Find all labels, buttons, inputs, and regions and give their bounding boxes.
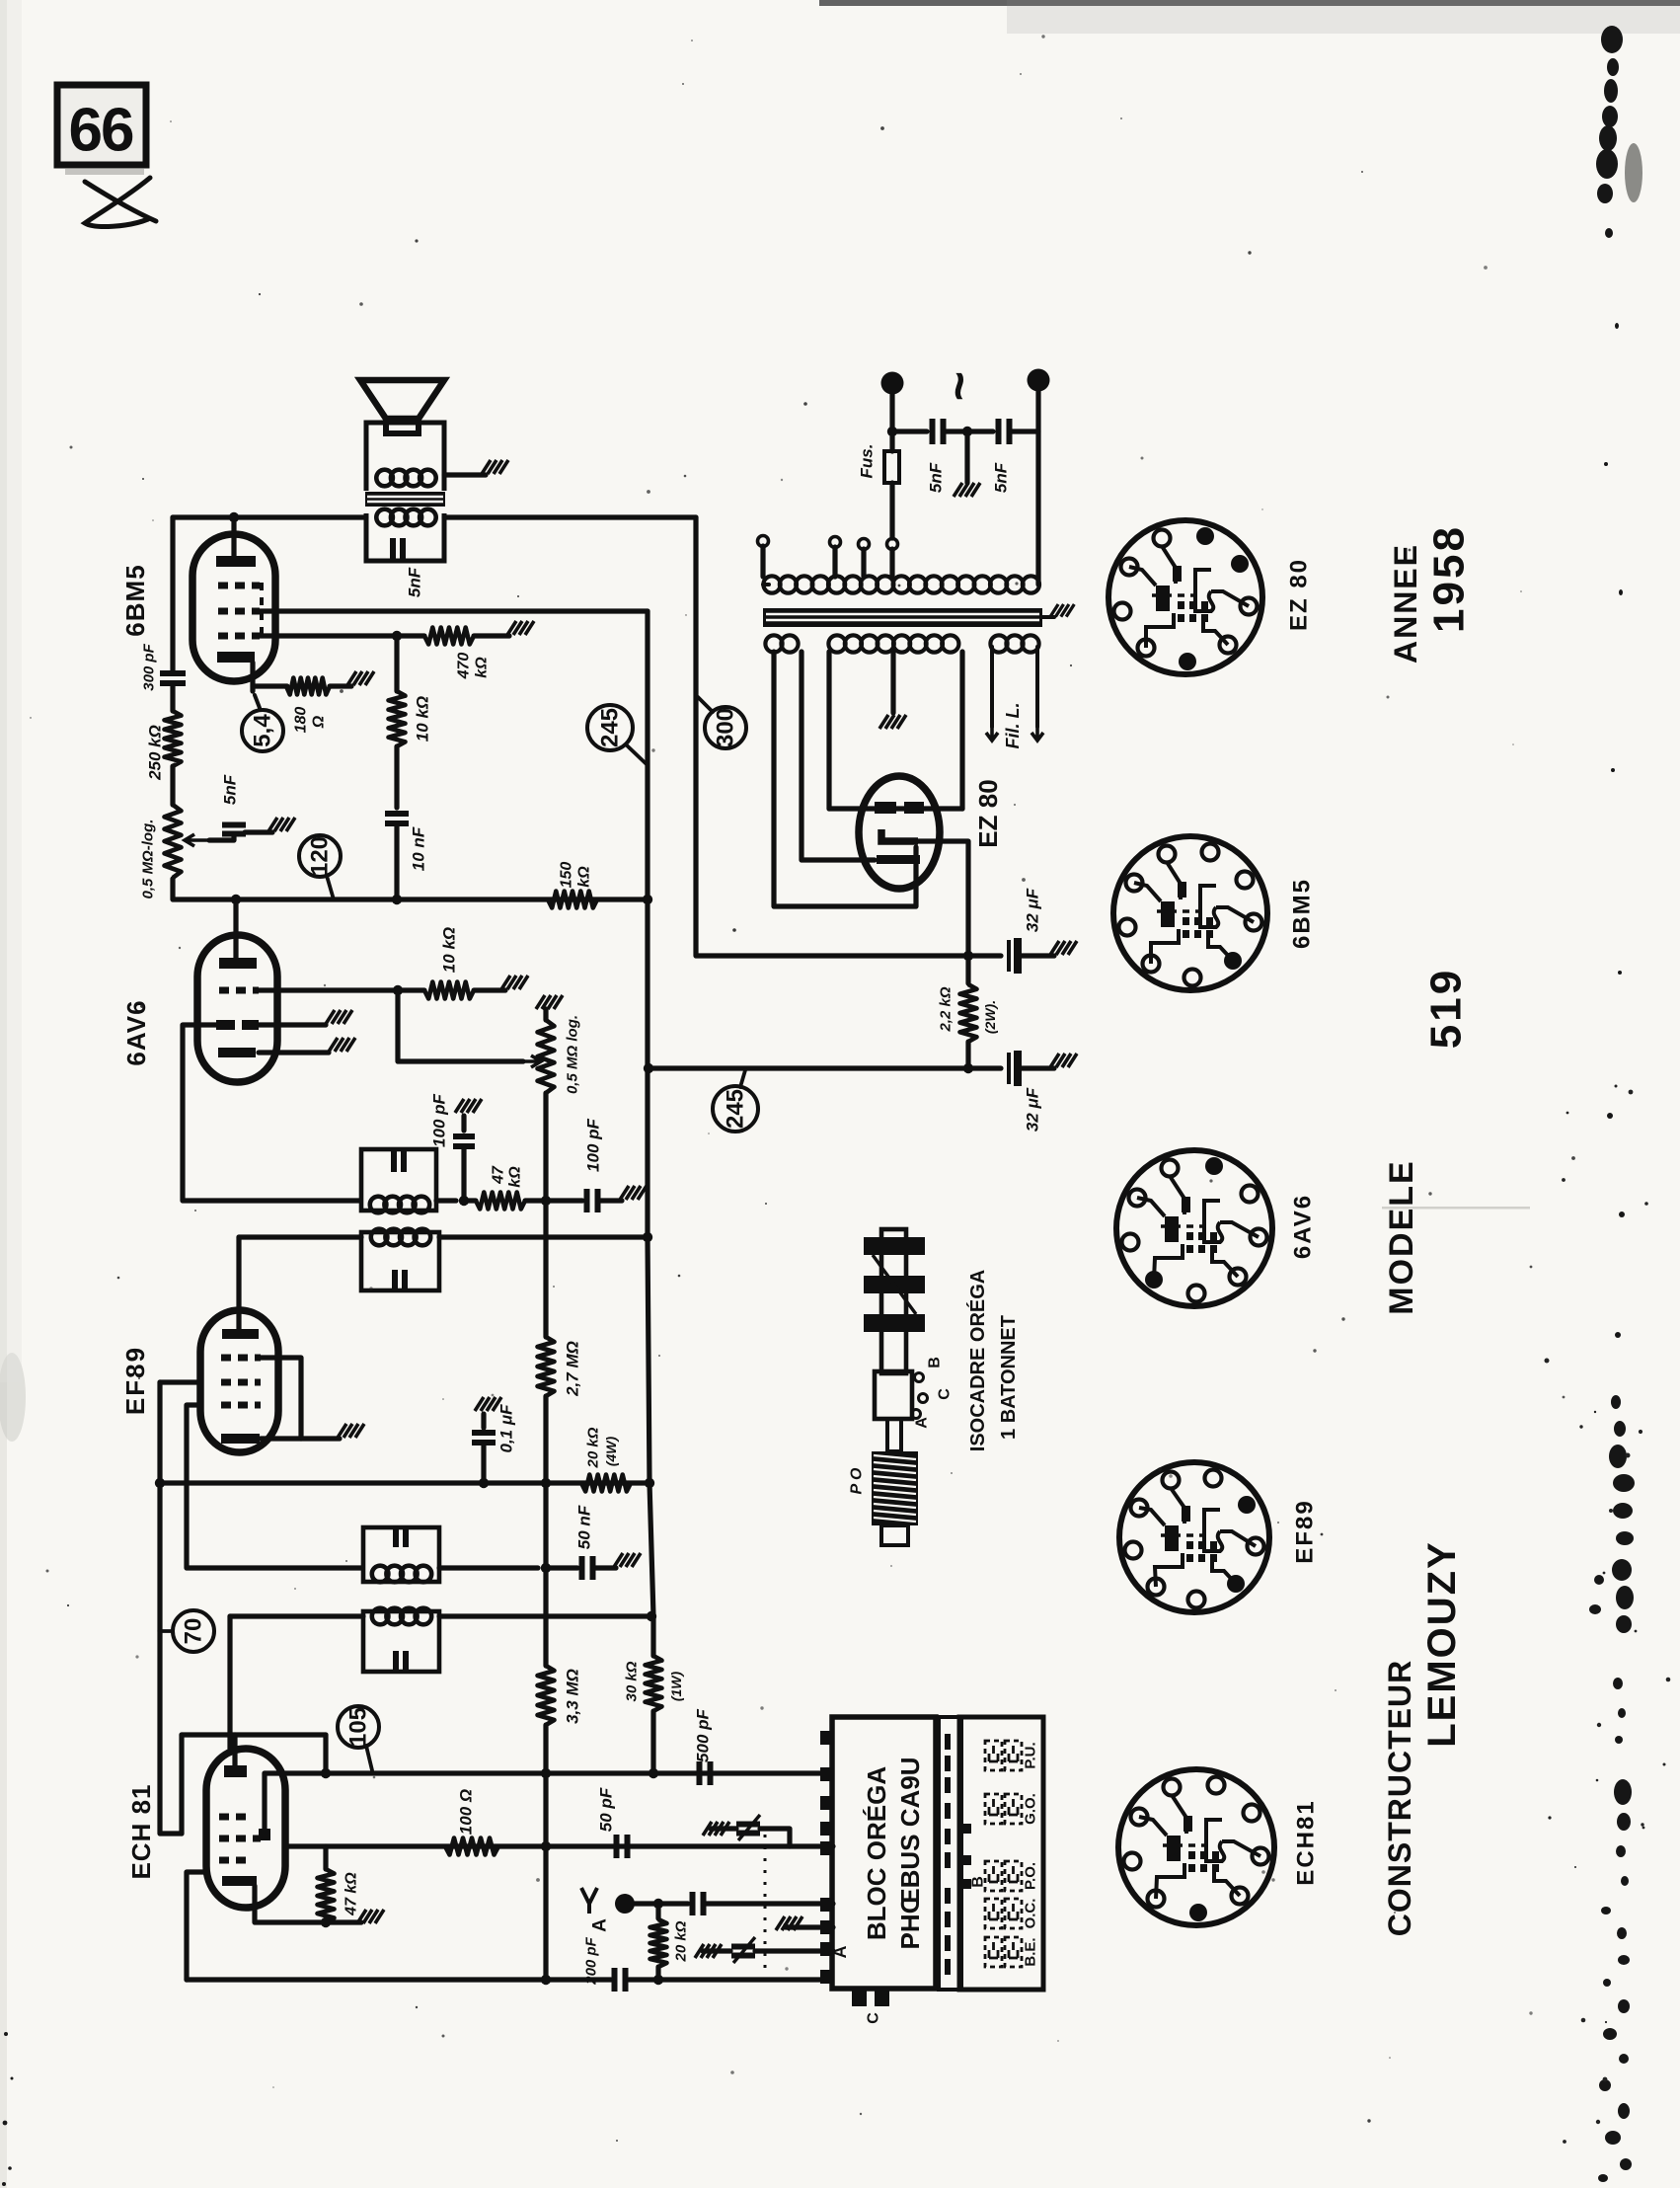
ECH81 grid dashes row2 [219,1836,261,1842]
EZ80 anode bar 2 [904,802,924,814]
svg-text:PHŒBUS CA9U: PHŒBUS CA9U [895,1757,925,1949]
trimmer capacitor 2 [731,1947,755,1956]
bloc bottom stub 1 [852,1989,867,2006]
power transformer primary winding [763,576,1039,592]
wire AVC line to EF89 row [543,1396,548,1483]
wire EF89 g2 out left [160,1379,200,1384]
capacitor IF T1 sec tuning [396,1525,406,1547]
svg-text:100 pF: 100 pF [584,1118,603,1171]
svg-text:6AV6: 6AV6 [1290,1194,1317,1259]
svg-text:P.O.: P.O. [1023,1862,1039,1890]
svg-text:5nF: 5nF [927,462,946,493]
wire mains left down [889,394,894,431]
6BM5 internal grid tie dashes [260,583,264,640]
resistor 3,3 MΩ [538,1666,555,1725]
svg-text:47: 47 [491,1165,507,1185]
svg-text:EZ 80: EZ 80 [973,779,1003,847]
bloc pin [820,1942,834,1956]
potentiometer wiper arrow [185,834,209,846]
isocadre terminal circles [912,1373,928,1419]
EZ80 cathode bracket [881,829,918,841]
wire 250k to volume pot [170,766,175,805]
ground 6AV6 diode [326,1010,352,1024]
ground AVC 100pF [620,1186,647,1200]
resistor 30 kΩ (1W) [646,1656,662,1711]
svg-text:20 kΩ: 20 kΩ [585,1427,602,1468]
wire cathode to 47k [255,1898,326,1922]
ground after 470k [507,621,534,635]
wire tap4 stem [889,549,894,577]
ferrite rod coil section 1 [864,1237,925,1255]
wire 245V line [649,1065,968,1070]
wire 32uF to ground [1022,953,1054,958]
IF transformer T2 secondary coil [370,1197,429,1213]
svg-text:ANNEE: ANNEE [1388,543,1423,664]
svg-text:G.O.: G.O. [1023,1793,1039,1825]
bloc switch wafer band [939,1717,961,1990]
capacitor 50 pF [617,1835,628,1858]
svg-text:10 nF: 10 nF [410,826,428,871]
wire grid junction to volume pot wiper [398,990,523,1061]
node rail / osc line [649,1768,658,1778]
faint scan line near MODELE [1382,1207,1530,1210]
bloc coil cell B.E. [985,1937,1002,1967]
svg-text:EF89: EF89 [120,1346,150,1415]
ferrite rod winding diagonal [873,1255,916,1314]
capacitor 10 nF [385,814,409,823]
capacitor IF T1 primary tuning [396,1651,406,1673]
capacitor 50 nF [582,1556,593,1580]
IF transformer T1 secondary frame [363,1527,439,1582]
node bottom rail 10nF junction [392,895,402,904]
svg-text:EZ 80: EZ 80 [1286,558,1313,631]
node voltage 245 V (top) [587,705,633,750]
svg-text:10 kΩ: 10 kΩ [414,696,432,742]
output transformer secondary frame [366,513,444,561]
wire 5nF to mains right [1010,429,1038,433]
secondary winding heater 2 (Fil. L.) [990,635,1038,652]
capacitor 32 μF no.1 [1009,938,1018,974]
node grid / 10k junction [393,985,403,995]
IF transformer T2 primary frame [361,1232,439,1290]
wire 2,2k to 245 line [965,1042,970,1068]
node 0,1uF junction [479,1478,489,1488]
capacitor 100 pF AVC [587,1189,598,1212]
capacitor 5nF across secondary [393,538,403,560]
bloc switch contact [945,1852,951,1868]
resistor 10 kΩ grid [424,982,474,999]
svg-text:245: 245 [723,1089,749,1129]
wire EZ80 anode line [829,806,962,811]
tube 6BM5 envelope [192,534,275,681]
wire 6BM5 anode lead [231,517,236,559]
svg-text:20 kΩ: 20 kΩ [673,1920,690,1962]
node detector output [459,1196,469,1206]
wire secondary to HT line [444,514,696,519]
bloc switch contact [945,1829,951,1844]
wire right HT rail upper [645,611,649,899]
wire 6AV6 diode to detector coil [183,1025,359,1201]
output transformer secondary coil [376,509,435,526]
node voltage 300 V [705,707,746,748]
antenna terminal dot [615,1894,635,1914]
power transformer core [763,608,1042,627]
wire top rail to 6BM5 anode branch [173,514,366,519]
wire AVC line lower [543,1483,548,1568]
capacitor IF T2 tuning [394,1150,404,1172]
ground tone capacitor [268,818,295,831]
node mixer line / AVC [541,1841,551,1851]
wire 10k to ground [474,987,505,992]
svg-text:5,4: 5,4 [250,714,276,747]
capacitor 300 pF coupling [160,673,186,683]
resistor 470 kΩ [424,628,474,645]
wire mains to fuse [889,431,894,451]
ground mains caps [954,483,980,497]
wire cap centre to ground [964,431,969,483]
wire HT riser to EZ80 cathode line [696,517,968,956]
bloc pin [820,1767,834,1781]
wire 245 bubble stem [626,744,648,765]
wire between 5nF caps [944,429,993,433]
bloc pin [820,1920,834,1934]
node rail / 150k junction [643,895,652,904]
node AVC to antenna rail [541,1975,551,1985]
ground 32uF no.1 [1050,941,1077,955]
secondary winding heater 1 [765,635,798,652]
wire left branch down to 300pF [170,517,175,672]
capacitor 5nF mains 1 [933,419,944,444]
svg-text:(1W): (1W) [668,1672,684,1702]
wire 120 bubble stem [327,876,334,899]
wire trimmer 1 to bloc line [760,1829,790,1846]
svg-text:Fil. L.: Fil. L. [1003,703,1023,749]
ground above volume pot [536,995,563,1009]
wire 0,1uF to row [481,1444,486,1483]
wire trimmer 2 to bloc pin [755,1948,833,1953]
6BM5 anode bar [216,556,256,567]
bloc coil cell O.C. [985,1899,1002,1928]
wire AVC to 3,3M [543,1568,548,1666]
svg-text:kΩ: kΩ [576,866,593,888]
trimmer capacitor 1 [736,1825,760,1834]
wire T1 primary to HT rail [439,1613,653,1618]
wire tap2 stem [832,547,837,577]
svg-text:C: C [866,2012,882,2024]
node AVC / AGC bus junction [541,1478,551,1488]
wire 6AV6 cathode to ground [259,1050,329,1055]
node voltage 245 V (lower) [713,1086,758,1132]
wire ECH81 heptode anode lead [227,1616,232,1749]
wire 300 bubble stem [698,697,713,712]
svg-text:P.U.: P.U. [1023,1742,1039,1768]
ferrite rod coil section 3 [864,1314,925,1332]
node bottom rail to 6AV6 anode [231,895,241,904]
capacitor 0,1 μF [472,1433,496,1443]
ECH81 cathode bar [222,1876,257,1886]
svg-text:47 kΩ: 47 kΩ [344,1872,360,1916]
resistor 10 kΩ screen [389,691,406,746]
svg-text:10 kΩ: 10 kΩ [440,927,459,973]
node rail / 245 line [644,1063,653,1073]
ground 6AV6 cathode [329,1038,355,1052]
wire bottom ground rail left [187,1977,611,1982]
oscillator coil PO base [881,1525,908,1545]
output transformer primary frame [366,423,444,491]
wire 300pF to 250k [170,684,175,711]
wire pot top [543,1009,548,1020]
wire speaker frame to ground [444,472,486,477]
mains terminal dot left [881,372,904,395]
bloc pin [820,1822,834,1836]
node screen bus / AGC row [155,1478,165,1488]
wire 20k top stem [655,1904,660,1918]
svg-text:120: 120 [307,836,334,876]
svg-text:50 nF: 50 nF [575,1505,594,1549]
resistor 250 kΩ [165,711,182,766]
svg-text:kΩ: kΩ [507,1166,524,1188]
capacitor 5nF tone [222,825,246,834]
wire gnd to trimmer 2 [703,1948,730,1953]
wire T1 sec to AVC line [439,1565,538,1570]
bloc switch contact [945,1777,951,1793]
mains terminal dot right [1028,369,1050,392]
tube EF89 envelope [200,1310,278,1452]
svg-text:200 pF: 200 pF [583,1936,600,1985]
tube ECH81 envelope [206,1749,285,1908]
bloc bottom stub 2 [875,1989,889,2006]
resistor 47 kΩ cathode [318,1869,335,1922]
svg-text:30 kΩ: 30 kΩ [624,1661,641,1701]
wire ECH81 outer loop left [179,1735,184,1834]
svg-text:C: C [937,1388,954,1400]
tube 6AV6 envelope [197,935,277,1082]
node mains cap centre [962,427,972,436]
svg-text:6AV6: 6AV6 [121,999,151,1065]
wire to 32uF no.2 [968,1065,1001,1070]
svg-text:250 kΩ: 250 kΩ [146,725,165,781]
node voltage 5,4 V [242,710,283,751]
antenna symbol [581,1888,597,1914]
wire triode anode lead up [262,1773,267,1829]
wire screen bus upper [157,1382,162,1483]
bloc pin [820,1731,834,1745]
scan noise right edge [1589,26,1642,2182]
wire antenna cap to bloc [704,1901,833,1906]
svg-text:A: A [590,1918,611,1932]
svg-text:32 μF: 32 μF [1024,888,1042,932]
wire 6AV6 anode lead [233,899,238,961]
transformer primary tap circles [758,536,769,547]
ganged tuning dashed link [764,1835,767,1973]
svg-text:kΩ: kΩ [474,657,491,678]
IF transformer T2 secondary frame [361,1149,436,1211]
resistor 20 kΩ (4W) [581,1475,631,1492]
wire AVC line bottom [543,1773,548,1980]
wire 5nF to ground [245,829,272,834]
svg-text:ECH81: ECH81 [1293,1799,1320,1885]
wire 6BM5 control grid row [259,633,397,638]
capacitor 100 pF detector [453,1136,475,1146]
wire 10nF to bottom rail [394,824,399,899]
wire 50nF to ground [593,1565,616,1570]
wire to 2,2k [965,956,970,983]
svg-text:(4W): (4W) [603,1437,619,1467]
ground bloc pin stub [776,1916,802,1930]
oscillator coil PO stem [887,1419,901,1451]
ground trimmer 2 [695,1944,722,1958]
svg-text:105: 105 [345,1707,372,1747]
wire right HT rail lower-mid [648,1237,649,1483]
resistor 20 kΩ antenna [650,1919,667,1967]
wire AVC node to 50nF [546,1565,577,1570]
volume pot wiper arrow [523,1055,541,1067]
ground 50 nF [614,1553,641,1567]
wire AVC line middle [543,1201,548,1337]
tube socket EF89 (underside view) [1119,1462,1269,1612]
bloc switch contact [945,1888,951,1904]
svg-text:100 Ω: 100 Ω [457,1789,476,1835]
svg-text:6BM5: 6BM5 [120,564,150,636]
scan specks bottom-left corner [2,2032,14,2186]
capacitor IF T2 primary tuning [395,1270,405,1291]
wire to 5nF no.1 [892,429,927,433]
svg-text:0,5 MΩ-log.: 0,5 MΩ-log. [140,820,157,899]
wire T2 primary to HT rail [439,1234,648,1239]
svg-text:180: 180 [293,707,310,734]
6BM5 cathode bar [217,652,255,663]
potentiometer 0,5 MΩ-log [165,805,182,878]
wire 180 ohm to ground [330,683,351,688]
wire core to ground [1042,615,1054,619]
potentiometer 0,5 MΩ log volume [538,1020,555,1093]
IF transformer T1 secondary coil [372,1566,431,1583]
EZ80 anode bar 1 [875,802,896,814]
svg-text:1958: 1958 [1425,524,1474,633]
wire 20k to bottom rail [655,1967,660,1980]
6AV6 cathode bar [218,1048,256,1057]
capacitor 500 pF padder [700,1761,711,1785]
wire to 10k [398,987,424,992]
svg-text:2,2 kΩ: 2,2 kΩ [938,986,955,1032]
node AVC junction [541,1196,551,1206]
wire 3,3M to osc line [543,1725,548,1773]
svg-text:300 pF: 300 pF [141,643,158,690]
svg-text:2,7 MΩ: 2,7 MΩ [564,1341,582,1397]
node grid/470k junction [392,631,402,641]
wire 470k to ground [474,633,509,638]
svg-text:P O: P O [849,1467,866,1495]
IF transformer T2 primary coil [371,1229,430,1246]
wire tap1 stem [760,546,765,577]
wire EF89 g3 tie to cathode [261,1358,301,1439]
tube EZ80 envelope [859,776,940,889]
resistor 150 kΩ [548,892,597,908]
wire heater 1 left loop [774,652,916,906]
svg-text:150: 150 [559,862,575,889]
wire right HT rail middle [645,899,649,1237]
bloc coil cell G.O. [985,1794,1002,1824]
svg-text:3,3 MΩ: 3,3 MΩ [564,1669,582,1724]
svg-text:100 pF: 100 pF [430,1093,449,1146]
ground after 180 ohm [347,671,374,685]
bloc pin [820,1841,834,1855]
IF transformer T1 primary frame [363,1611,439,1672]
page number box 66 [57,85,146,175]
svg-text:500 pF: 500 pF [694,1708,713,1761]
svg-text:1 BATONNET: 1 BATONNET [998,1315,1020,1440]
svg-text:MODELE: MODELE [1383,1159,1420,1314]
fuse body [884,451,899,483]
node voltage 105 V [338,1706,379,1748]
output transformer primary coil [376,470,435,487]
svg-text:50 pF: 50 pF [597,1787,616,1832]
6AV6 grid dashes [219,987,259,994]
wire EF89 cathode to ground [301,1436,340,1441]
wire AF stage bottom rail [173,879,648,899]
node rail / 20k [645,1478,654,1488]
wire tap3 stem [861,549,866,577]
svg-text:0,1 μF: 0,1 μF [497,1404,516,1453]
EF89 grid3 dashes [221,1355,261,1362]
svg-text:O.C.: O.C. [1023,1899,1039,1929]
6AV6 diode plate right [242,1020,259,1030]
arrow Fil.L left [986,725,998,741]
wire diode plates to ground [259,1022,326,1027]
tube socket 6BM5 (underside view) [1113,836,1267,990]
wire screen bus bottom [160,1631,182,1834]
wire mains right to primary end [1035,391,1040,585]
wire T2 primary to EF89 anode [239,1234,361,1239]
wire Fil.L right [1035,647,1039,727]
wire 30k to osc supply line [650,1711,655,1773]
svg-text:LEMOUZY: LEMOUZY [1420,1540,1464,1748]
wire 100pF to ground [598,1198,622,1203]
ECH81 heptode anode bar [224,1765,247,1777]
svg-text:A: A [830,1946,850,1959]
wire 245 lower bubble stem [740,1070,745,1087]
wire bottom rail to bloc [629,1977,825,1982]
wire screen bus to 70 node [157,1483,162,1631]
wire HT right to EZ80 anode [959,652,964,809]
svg-text:5nF: 5nF [992,462,1011,493]
ground above 100 pF detector [455,1099,482,1113]
capacitor 200 pF [615,1968,626,1992]
wire ECH81 cathode hook [252,1886,257,1898]
resistor 100 Ω [445,1838,498,1855]
wire 70 bubble stem [160,1629,173,1633]
ground above 0,1 uF [475,1397,501,1411]
bloc pin [820,1898,834,1912]
arrow Fil.L right [1031,725,1043,741]
secondary winding HT [828,635,958,652]
resistor 2,7 MΩ [538,1337,555,1396]
node bottom rail / 20k [653,1975,663,1985]
wire ECH81 g1 mixer line to bloc [285,1843,833,1848]
wire wiper to 5nF [209,836,234,840]
scan smudge left margin [0,1353,26,1442]
node 245V filter junction [963,1063,973,1073]
bloc coil box body [959,1717,1043,1990]
svg-text:70: 70 [181,1618,207,1645]
resistor 2,2 kΩ (2W) [960,984,977,1042]
wire cathode to 180 ohm [253,683,287,688]
ground at output transformer primary [482,460,508,474]
bloc switch contact [945,1935,951,1951]
6BM5 grid 1 dashes [218,633,260,640]
svg-text:300: 300 [713,708,739,747]
node voltage 120 V [299,835,341,877]
